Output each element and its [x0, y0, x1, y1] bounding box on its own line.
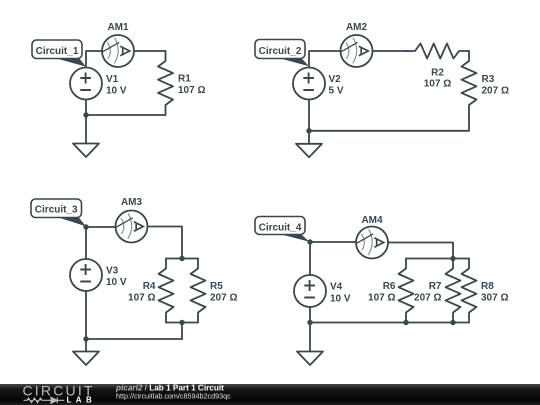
svg-text:207 Ω: 207 Ω: [414, 293, 441, 304]
node label Circuit_1: [32, 40, 82, 59]
wire AM2 to R2: [373, 50, 408, 52]
svg-text:10 V: 10 V: [106, 86, 127, 97]
resistor R5: [191, 259, 206, 323]
wire bottom rail c1: [86, 114, 166, 116]
wire AM1 to R1: [134, 50, 166, 52]
ammeter AM3: [116, 211, 148, 243]
label tail Circuit_2: [279, 58, 309, 66]
node label Circuit_2: [255, 40, 305, 59]
node junction c3 bus bottom: [179, 320, 184, 325]
svg-text:V2: V2: [329, 74, 342, 85]
svg-text:R1: R1: [178, 74, 191, 85]
svg-text:207 Ω: 207 Ω: [482, 86, 509, 97]
resistor R8: [462, 259, 477, 323]
wire bottom rail c2: [309, 130, 469, 132]
logo resistor-diode art: [24, 397, 65, 403]
ground c3: [73, 352, 99, 366]
resistor R2: [405, 44, 469, 59]
node junction c4 feed: [450, 256, 455, 261]
wire bus down c3: [181, 323, 183, 340]
voltage source V2: [293, 68, 325, 100]
label tail Circuit_1: [54, 58, 86, 67]
wire R3 bottom: [468, 115, 470, 131]
wire V4 bottom to ground: [309, 307, 311, 352]
ground c4: [297, 352, 323, 366]
resistor R6: [399, 259, 414, 323]
svg-text:V4: V4: [330, 282, 343, 293]
svg-text:10 V: 10 V: [330, 293, 351, 304]
wire node to AM4: [310, 241, 356, 243]
svg-text:R6: R6: [383, 281, 396, 292]
node junction c4 rail R6: [403, 320, 408, 325]
svg-text:R7: R7: [429, 281, 442, 292]
svg-text:Circuit_3: Circuit_3: [35, 205, 78, 216]
svg-text:107 Ω: 107 Ω: [368, 293, 395, 304]
resistor R1: [158, 51, 173, 115]
node junction c4 rail V4: [307, 320, 312, 325]
svg-text:V3: V3: [106, 266, 119, 277]
ground c1: [73, 144, 99, 158]
node junction c2: [306, 128, 311, 133]
node label Circuit_4: [255, 217, 305, 235]
svg-text:V1: V1: [106, 74, 119, 85]
wire V4 top: [309, 242, 311, 275]
node junction c4 top: [307, 239, 312, 244]
resistor R3: [462, 51, 477, 115]
node label Circuit_3: [31, 199, 82, 218]
svg-text:5 V: 5 V: [329, 86, 344, 97]
wire top bus c3: [166, 258, 198, 260]
svg-text:R3: R3: [482, 74, 495, 85]
label tail Circuit_3: [57, 217, 86, 226]
wire V1 bottom to ground: [85, 100, 87, 144]
svg-text:Circuit_4: Circuit_4: [259, 223, 302, 234]
label tail Circuit_4: [280, 234, 310, 242]
wire V3 top: [85, 227, 87, 259]
ammeter AM2: [341, 35, 373, 67]
node junction c3 top: [83, 224, 88, 229]
voltage source V3: [70, 259, 102, 291]
wire V3 bottom to ground: [85, 291, 87, 352]
wire bottom rail c4: [310, 322, 469, 324]
svg-text:307 Ω: 307 Ω: [481, 293, 508, 304]
svg-text:AM1: AM1: [107, 22, 129, 33]
svg-text:207 Ω: 207 Ω: [210, 293, 237, 304]
wire V1 top to ammeter: [86, 51, 102, 68]
wire AM4 to parallel feed: [388, 243, 453, 259]
node junction c1: [83, 112, 88, 117]
svg-text:AM2: AM2: [346, 22, 368, 33]
resistor R4: [159, 259, 174, 323]
voltage source V1: [70, 68, 102, 100]
wire V2 bottom to ground: [308, 100, 310, 144]
wire V2 top to ammeter: [309, 51, 341, 68]
svg-text:R5: R5: [210, 281, 223, 292]
svg-text:R2: R2: [431, 68, 444, 79]
wire AM3 to parallel feed: [148, 227, 183, 259]
svg-text:AM3: AM3: [121, 197, 143, 208]
svg-text:Circuit_2: Circuit_2: [259, 46, 302, 57]
resistor R7: [446, 259, 461, 323]
svg-text:AM4: AM4: [361, 215, 383, 226]
svg-text:LAB: LAB: [67, 396, 97, 405]
wire top bus c4: [406, 258, 469, 260]
svg-text:10 V: 10 V: [106, 277, 127, 288]
svg-text:Circuit_1: Circuit_1: [36, 46, 79, 57]
svg-text:107 Ω: 107 Ω: [424, 79, 451, 90]
svg-text:http://circuitlab.com/c8594b2c: http://circuitlab.com/c8594b2cd93qc: [116, 392, 231, 401]
wire node to AM3: [86, 226, 116, 228]
wire bottom bus c3: [166, 322, 198, 324]
svg-text:107 Ω: 107 Ω: [128, 293, 155, 304]
svg-text:R8: R8: [481, 281, 494, 292]
node junction c3 bus top: [179, 256, 184, 261]
node junction c4 rail R7: [450, 320, 455, 325]
ammeter AM4: [356, 227, 388, 259]
svg-text:R4: R4: [143, 281, 156, 292]
ground c2: [296, 144, 322, 158]
svg-text:107 Ω: 107 Ω: [178, 85, 205, 96]
voltage source V4: [294, 275, 326, 307]
wire bottom rail c3: [86, 338, 182, 340]
node junction c3 rail: [83, 336, 88, 341]
ammeter AM1: [102, 35, 134, 67]
